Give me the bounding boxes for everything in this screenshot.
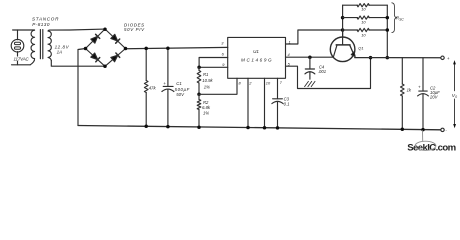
wire IC pin 2 to bottom rail <box>247 78 249 127</box>
label Vo <box>452 93 458 99</box>
node R2 bottom rail <box>197 125 201 129</box>
label R2 6.8k 1% <box>202 100 211 116</box>
label T1 STANCOR P-8130 <box>32 16 59 27</box>
wire primary bottom <box>12 64 31 66</box>
svg-text:R1: R1 <box>203 72 208 77</box>
wire IC pin 8 to R1/R2 junction <box>199 78 237 94</box>
label Rsc <box>396 15 405 21</box>
Rsc right bus down to output rail <box>386 5 388 57</box>
capacitor C1 500uF 50V <box>162 48 174 127</box>
svg-text:3: 3 <box>221 41 224 46</box>
resistor 47k <box>144 48 148 126</box>
svg-text:6: 6 <box>222 52 225 57</box>
node pin4/C4/base junction <box>308 55 312 59</box>
resistor Rsc-b 10 ohm <box>343 16 388 19</box>
pin number labels left 3 6 9 <box>221 41 225 67</box>
svg-text:MC1469G: MC1469G <box>241 58 272 63</box>
svg-text:0.1: 0.1 <box>284 102 290 107</box>
node 47k top on rail <box>144 47 148 51</box>
resistor 1k bleeder <box>401 58 405 130</box>
wire primary top <box>13 29 35 31</box>
Vo annotation arrow <box>453 60 456 128</box>
wire IC pin 6 feed <box>199 58 228 68</box>
svg-text:-: - <box>445 127 447 132</box>
svg-text:C1: C1 <box>176 81 182 86</box>
label C4 .001 <box>318 64 326 74</box>
svg-text:+: + <box>447 56 450 61</box>
node left bus mid <box>341 16 345 20</box>
wire IC pin 5 sense loop to output rail <box>286 58 371 88</box>
node bridge left vertex <box>84 47 88 51</box>
svg-text:1k: 1k <box>407 88 412 93</box>
svg-text:9: 9 <box>222 62 225 67</box>
svg-text:47k: 47k <box>149 85 157 90</box>
svg-text:1%: 1% <box>203 111 209 116</box>
node output terminal minus <box>441 128 444 131</box>
svg-text:1A: 1A <box>57 50 63 55</box>
label C1 plus <box>163 81 166 86</box>
svg-text:P-8130: P-8130 <box>32 22 50 27</box>
watermark SeekIC.com <box>407 130 456 153</box>
resistor R2 6.8k 1% <box>197 94 201 127</box>
svg-text:U1: U1 <box>253 49 259 54</box>
svg-text:10.9k: 10.9k <box>202 78 213 83</box>
label R1 10.9k 1% <box>202 72 213 90</box>
label 12.8V 1A <box>55 45 70 55</box>
svg-text:7: 7 <box>280 80 283 85</box>
svg-text:1%: 1% <box>204 85 210 90</box>
svg-text:10: 10 <box>361 33 366 38</box>
node collector/pin1/Rsc junction <box>341 28 345 32</box>
pin number labels right 1 4 5 <box>288 40 291 67</box>
svg-text:SeekIC.com: SeekIC.com <box>407 143 456 154</box>
svg-text:2: 2 <box>248 80 252 85</box>
node pin10 bottom rail <box>263 126 267 130</box>
pin number labels bottom 8 2 10 7 <box>239 80 283 86</box>
svg-text:0: 0 <box>455 95 457 99</box>
AC plug P1 (117VAC wall outlet) <box>11 30 24 65</box>
wire IC pin 9 feed <box>199 66 228 68</box>
label U1 MC1469G <box>241 49 272 63</box>
diode D4 bottom-right <box>111 53 120 62</box>
node bridge right vertex <box>124 47 128 51</box>
label 10 (c) <box>361 33 366 38</box>
label C1 500uF 50V <box>175 81 190 97</box>
svg-text:+: + <box>418 85 421 90</box>
label C2 10uF 20V <box>429 86 440 100</box>
wire top rail (bridge + to IC pin 3) <box>126 47 228 48</box>
label minus terminal <box>445 127 447 132</box>
svg-text:.001: .001 <box>318 69 326 74</box>
node C1 top on rail <box>166 46 170 50</box>
node C1 bottom rail <box>166 125 170 129</box>
svg-text:50V: 50V <box>176 92 185 97</box>
label DIODES 50V PIV <box>124 22 145 32</box>
wire IC pin 1 up to Rsc left bus <box>286 30 343 44</box>
node sense wire on output rail <box>369 56 373 60</box>
IC U1 MC1469G <box>228 37 286 78</box>
resistor Rsc-a 10 ohm <box>343 4 388 7</box>
capacitor C4 .001 <box>305 57 315 79</box>
wire output rail <box>355 57 441 59</box>
svg-text:10: 10 <box>361 7 366 12</box>
diode D3 bottom-left <box>91 53 100 62</box>
bridge diamond edge wires <box>86 29 126 66</box>
wire DC minus: bridge left vertex down to bottom rail <box>78 49 86 126</box>
node pin2 bottom rail <box>246 126 250 130</box>
svg-text:10: 10 <box>266 80 271 85</box>
label 1k <box>407 88 412 93</box>
label Q1 <box>358 46 363 51</box>
brace for Rsc <box>392 3 397 33</box>
node C2 bottom rail <box>421 128 425 132</box>
wire IC pin 4 to Q1 base <box>286 56 334 58</box>
transformer T1 primary winding <box>30 30 34 65</box>
svg-text:50V PIV: 50V PIV <box>124 27 145 32</box>
svg-text:STANCOR: STANCOR <box>32 16 59 21</box>
diode D1 top-left <box>91 34 100 43</box>
capacitor C3 0.1 on pin 7 <box>272 78 283 128</box>
node R1/R2/pin8 junction <box>197 93 201 97</box>
label C2 plus <box>418 85 421 90</box>
node bridge top vertex <box>103 27 107 31</box>
node 1k bottom rail <box>401 128 405 132</box>
svg-text:10: 10 <box>361 20 366 25</box>
wire IC pin 10 to bottom rail <box>264 78 266 127</box>
node right bus bottom <box>386 28 390 32</box>
node right bus mid <box>386 16 390 20</box>
svg-text:4: 4 <box>288 52 291 57</box>
wire secondary bottom to bridge bottom vertex <box>51 61 105 67</box>
label plus terminal <box>447 56 450 61</box>
svg-text:SC: SC <box>399 18 404 22</box>
node Rsc bus on output rail <box>386 56 390 60</box>
wire secondary top to bridge <box>48 29 105 31</box>
svg-text:20V: 20V <box>429 94 439 99</box>
node output terminal plus <box>441 56 444 59</box>
label C3 0.1 <box>284 96 290 106</box>
capacitor C2 10uF 20V <box>418 58 429 130</box>
node C3 bottom rail <box>276 126 280 129</box>
node bridge bottom vertex <box>103 65 107 69</box>
transformer T1 secondary winding <box>48 31 51 61</box>
transistor Q1 <box>330 30 355 62</box>
svg-text:117VAC: 117VAC <box>14 56 30 61</box>
ground chassis symbol under C4 <box>305 81 315 86</box>
label 117VAC <box>14 56 30 61</box>
label 47k <box>149 85 157 90</box>
node 47k bottom rail <box>144 125 148 129</box>
svg-text:Q1: Q1 <box>358 46 363 51</box>
svg-text:6.8k: 6.8k <box>202 105 211 110</box>
label 10 (b) <box>361 20 366 25</box>
resistor Rsc-c 10 ohm <box>343 28 388 31</box>
Rsc left bus <box>342 5 344 37</box>
resistor R1 10.9k 1% <box>197 67 201 94</box>
node R1 top junction <box>197 66 201 70</box>
diode D2 top-right <box>111 34 120 43</box>
svg-text:8: 8 <box>239 80 242 85</box>
transformer T1 core <box>40 30 42 59</box>
svg-text:+: + <box>163 81 166 86</box>
wire bottom rail <box>78 126 441 130</box>
label 10 (a) <box>361 7 366 12</box>
